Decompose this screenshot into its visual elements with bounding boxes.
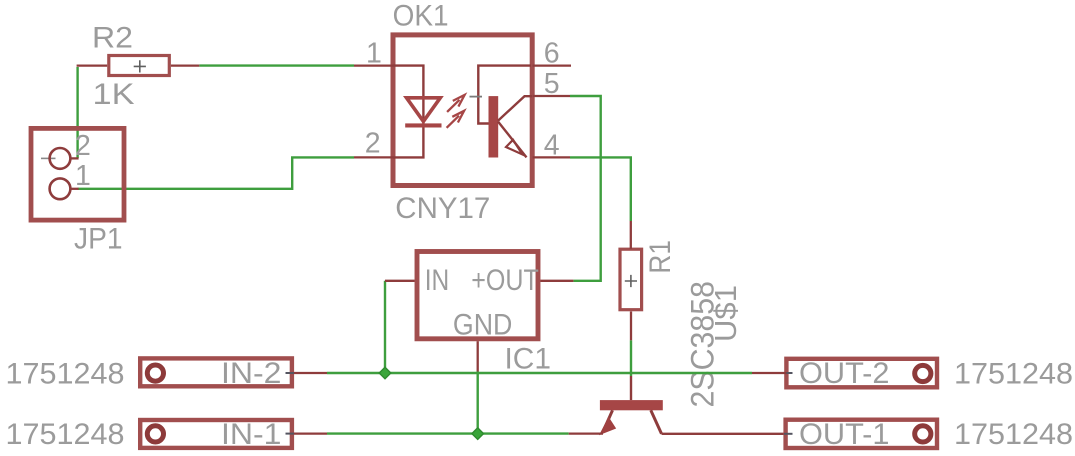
- IC1 pin GND wire: [477, 341, 479, 371]
- wire net IN-2 to OUT-2 (green horizontal): [327, 372, 752, 374]
- OK1 transistor base bar: [489, 96, 499, 157]
- wire net N$5 OK1.4 to R1 top (green): [570, 157, 631, 221]
- svg-text:5: 5: [544, 68, 560, 100]
- wire net N$2 JP1.1 to OK1.2 (green L path): [78, 157, 354, 188]
- supply symbol OUT-2 box: [786, 359, 937, 388]
- svg-text:OK1: OK1: [393, 0, 449, 33]
- OK1 pin 2 wire: [354, 156, 393, 158]
- resistor R2 pin 2 wire (right, dark red): [171, 64, 199, 66]
- svg-text:IN-1: IN-1: [221, 418, 282, 451]
- OK1 LED cathode bar: [405, 123, 441, 127]
- wire U$1 emitter to IN-1 net (dark red): [569, 432, 603, 434]
- svg-text:IN: IN: [425, 264, 450, 297]
- svg-text:OUT-1: OUT-1: [799, 418, 890, 451]
- OK1 pin 6 wire: [533, 64, 571, 66]
- junction on IN-1 net at IC1.GND: [472, 428, 484, 440]
- JP1 origin cross: [41, 157, 56, 159]
- OK1 light arrow lower: [447, 111, 465, 128]
- OK1 LED anode path from pin 1: [393, 66, 423, 128]
- IN-2 pin wire: [294, 372, 327, 374]
- svg-text:U$1: U$1: [708, 285, 743, 342]
- svg-text:1751248: 1751248: [954, 418, 1073, 451]
- wire net N$1 JP1.2 to R2 left (vertical green): [76, 67, 78, 158]
- svg-text:1: 1: [75, 160, 91, 192]
- svg-text:1: 1: [366, 37, 382, 69]
- IC1 pin IN wire: [385, 280, 415, 282]
- svg-text:1751248: 1751248: [6, 418, 125, 451]
- connector JP1: [31, 128, 124, 220]
- IN-1 pad ring: [147, 426, 163, 442]
- resistor R2 pin 1 wire (left, dark red): [77, 64, 108, 66]
- OUT-1 inner pin tick: [784, 433, 793, 435]
- svg-text:R1: R1: [644, 240, 677, 274]
- wire net IC1.IN down to IN-2 net (green vertical): [384, 281, 386, 373]
- OK1 emitter arrowhead (open): [506, 140, 523, 155]
- supply symbol OUT-1 box: [786, 420, 937, 448]
- resistor R2: [109, 56, 170, 76]
- wire net N$4 OK1.5 to IC1.OUT (green): [570, 96, 601, 281]
- OUT-1 pad ring: [915, 426, 931, 442]
- OUT-2 pin wire: [752, 372, 786, 374]
- JP1 pin 1 stub: [70, 188, 78, 190]
- U$1 base lead: [630, 376, 632, 400]
- resistor R1 (vertical): [620, 249, 642, 310]
- svg-text:IC1: IC1: [505, 343, 552, 376]
- svg-text:6: 6: [544, 37, 560, 69]
- IN-1 inner pin tick: [286, 433, 295, 435]
- junction on IN-2 net at IC1.IN: [379, 367, 391, 379]
- svg-text:1K: 1K: [93, 78, 135, 111]
- transistor U$1 base bar: [600, 400, 663, 410]
- R1 pin 1 wire (top): [630, 221, 632, 249]
- svg-text:R2: R2: [92, 21, 133, 54]
- JP1 pin 2 stub: [70, 157, 78, 159]
- R1 pin 2 wire (bottom): [630, 312, 632, 341]
- OK1 pin 1 wire: [354, 64, 393, 66]
- svg-text:4: 4: [544, 130, 560, 162]
- U$1 emitter diagonal: [604, 410, 613, 430]
- svg-text:GND: GND: [453, 308, 513, 341]
- supply symbol IN-1 box: [140, 420, 292, 448]
- IN-2 pad ring: [147, 365, 163, 381]
- OK1 pin 5 wire: [533, 95, 570, 97]
- svg-text:CNY17: CNY17: [395, 192, 490, 225]
- svg-text:1751248: 1751248: [6, 357, 125, 390]
- svg-text:OUT-2: OUT-2: [799, 357, 890, 390]
- OK1 origin cross: [470, 96, 483, 98]
- svg-text:2: 2: [365, 128, 381, 160]
- svg-text:1751248: 1751248: [954, 357, 1073, 390]
- regulator IC1 box: [417, 252, 538, 339]
- OK1 light arrow upper: [447, 95, 465, 112]
- svg-text:2: 2: [75, 130, 91, 162]
- U$1 emitter arrowhead (filled): [600, 418, 615, 435]
- supply symbol IN-2 box: [140, 358, 292, 386]
- wire net IC1.GND down to IN-1 net (green vertical): [477, 372, 479, 434]
- OK1 LED cathode path to pin 2: [393, 128, 423, 158]
- OUT-2 pad ring: [915, 365, 931, 381]
- IC1 pin OUT wire: [540, 280, 573, 282]
- wire net N$6 R1 bottom to Q1 (green): [630, 340, 632, 376]
- wire net N$3 R2 right to OK1.1 (green): [199, 64, 354, 66]
- wire U$1 collector to OUT-1 (dark red): [662, 433, 785, 435]
- optocoupler OK1 box: [393, 35, 532, 186]
- OK1 emitter diagonal to pin 4: [498, 122, 527, 158]
- U$1 collector diagonal: [651, 410, 662, 434]
- svg-text:+OUT: +OUT: [471, 264, 539, 297]
- IN-2 inner pin tick: [286, 372, 295, 374]
- svg-text:IN-2: IN-2: [221, 357, 282, 390]
- OK1 collector diagonal to pin 5: [498, 96, 532, 121]
- svg-text:JP1: JP1: [74, 223, 123, 256]
- OK1 LED triangle: [407, 98, 441, 122]
- OUT-2 inner pin tick: [784, 372, 793, 374]
- OK1 base path from pin 6: [478, 66, 531, 124]
- IN-1 pin wire: [294, 432, 327, 434]
- wire net IN-1 to Q1 emitter (green horizontal): [327, 432, 569, 434]
- JP1 pad circle pin 2: [50, 148, 71, 169]
- OK1 pin 4 wire: [533, 156, 570, 158]
- JP1 pad circle pin 1: [50, 178, 71, 199]
